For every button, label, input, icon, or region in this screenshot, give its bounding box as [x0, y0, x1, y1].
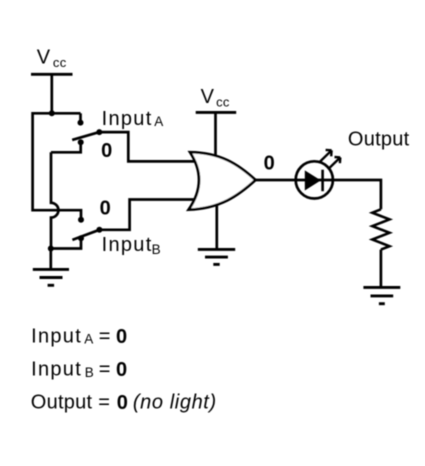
led D1 light arrow 1 [319, 150, 332, 163]
wire junction to ground G1 [49, 249, 52, 270]
svg-text:Input: Input [31, 326, 82, 348]
svg-text:=: = [99, 326, 111, 348]
svg-text:A: A [154, 114, 163, 129]
svg-text:B: B [85, 365, 94, 380]
switch S2 bottom throw terminal [78, 235, 84, 241]
svg-text:0: 0 [116, 359, 127, 381]
svg-text:=: = [99, 359, 111, 381]
junction dot Vcc node [49, 110, 55, 116]
label Input A [102, 108, 164, 130]
power Vcc1 bar [31, 73, 73, 76]
wire resistor to ground G3 [380, 250, 383, 287]
power Vcc1 label [37, 46, 67, 70]
switch S1 arm [72, 132, 99, 140]
wire ground rail with hop over crossing [51, 152, 58, 248]
svg-text:Input: Input [31, 359, 82, 381]
wire switch B bottom throw to ground junction [51, 241, 81, 249]
svg-text:Output: Output [348, 128, 410, 150]
label equation line 1: Input A = 0 [31, 326, 127, 348]
svg-text:Output: Output [31, 392, 93, 414]
wire Vcc2 to gate top [214, 112, 217, 162]
led D1 cathode bar [321, 170, 324, 192]
wire Vcc node horizontal [33, 112, 81, 115]
svg-text:=: = [98, 392, 110, 414]
wire switch B pole to gate input 2 [99, 200, 196, 230]
switch S2 arm [72, 230, 99, 240]
svg-text:0: 0 [101, 140, 112, 162]
ground G2 [198, 249, 235, 264]
svg-text:0: 0 [100, 197, 111, 219]
svg-text:B: B [152, 242, 161, 257]
led D1 circle [296, 161, 333, 198]
switch S1 bottom throw terminal [78, 139, 84, 145]
ground G3 [363, 287, 400, 303]
svg-text:cc: cc [53, 55, 67, 70]
svg-text:cc: cc [216, 95, 230, 110]
svg-text:A: A [84, 331, 93, 346]
wire switch A bottom throw to ground rail [51, 144, 81, 153]
power Vcc2 label [201, 86, 230, 110]
svg-text:Input: Input [102, 108, 153, 130]
resistor R1 [372, 209, 389, 249]
or-gate U1 [189, 152, 256, 210]
switch S1 top throw terminal [78, 120, 84, 126]
label Input B [102, 234, 161, 257]
wire gate output to resistor top [256, 180, 381, 209]
label equation line 3: Output = 0 (no light) [31, 392, 217, 414]
switch S1 pole terminal [96, 129, 102, 135]
ground G1 [33, 269, 69, 285]
label equation line 2: Input B = 0 [31, 359, 127, 381]
led D1 anode triangle [305, 170, 321, 190]
junction dot ground node [48, 246, 54, 252]
switch S2 pole terminal [96, 227, 102, 233]
switch S2 top throw terminal [78, 217, 84, 223]
wire Vcc1 to node [50, 74, 53, 113]
wire switch A pole to gate input 1 [99, 132, 196, 161]
svg-text:0: 0 [264, 153, 275, 175]
svg-text:0: 0 [117, 392, 128, 414]
svg-text:V: V [201, 86, 215, 108]
svg-text:Input: Input [102, 234, 153, 256]
svg-text:0: 0 [116, 326, 127, 348]
svg-text:(no light): (no light) [133, 392, 217, 414]
wire left branch down and over to switch B top throw [33, 112, 81, 217]
power Vcc2 bar [196, 111, 237, 114]
svg-text:V: V [37, 46, 51, 68]
wire gate bottom to ground G2 [215, 198, 218, 249]
wire to switch A top throw [79, 113, 82, 120]
led D1 light arrow 2 [330, 157, 341, 168]
